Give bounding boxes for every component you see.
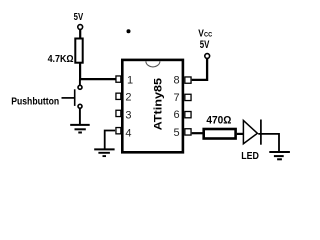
pushbutton S1 top contact (78, 85, 82, 89)
pushbutton S1 actuator bar (74, 89, 76, 106)
pushbutton S1 actuator stem (62, 97, 75, 99)
svg-text:5V: 5V (74, 12, 84, 23)
ground G2 at pin 4 (94, 149, 114, 156)
wire pushbutton bottom to ground (79, 109, 81, 125)
LED D1 triangle (243, 121, 257, 144)
svg-text:470Ω: 470Ω (206, 114, 231, 126)
pin 2 pad (116, 93, 121, 99)
svg-text:LED: LED (241, 150, 259, 162)
svg-text:8: 8 (174, 75, 180, 87)
svg-text:3: 3 (125, 110, 131, 122)
svg-text:1: 1 (127, 75, 133, 87)
svg-text:V: V (198, 28, 204, 40)
ground G1 under pushbutton (70, 125, 90, 133)
pin 4 pad (116, 128, 121, 134)
node 5V terminal circle (78, 25, 83, 30)
pin 8 pad (185, 77, 191, 83)
wire 5V terminal to R1 top (79, 29, 81, 38)
svg-text:Pushbutton: Pushbutton (11, 96, 59, 108)
svg-text:4.7KΩ: 4.7KΩ (48, 53, 74, 65)
ground G3 at LED (269, 152, 290, 159)
stray dot above U1 (127, 29, 131, 33)
svg-text:6: 6 (174, 109, 180, 121)
svg-text:7: 7 (174, 92, 180, 104)
pin 7 pad (185, 94, 191, 100)
wire R1 bottom to junction (79, 63, 81, 80)
svg-text:ATtiny85: ATtiny85 (153, 78, 165, 131)
pin 3 pad (116, 110, 121, 116)
wire pin 5 to R2 (192, 132, 203, 134)
pushbutton S1 bottom contact (78, 104, 82, 108)
resistor R1 4.7KΩ body (75, 39, 82, 63)
resistor R2 470Ω body (204, 129, 236, 139)
wire VCC terminal to pin 8 (192, 58, 207, 80)
wire LED cathode to ground (258, 134, 279, 151)
wire pin 4 to ground (105, 131, 115, 149)
svg-text:4: 4 (125, 127, 131, 139)
node VCC terminal circle (205, 54, 210, 59)
wire junction to pushbutton top (79, 80, 81, 86)
svg-text:5: 5 (174, 127, 180, 139)
IC U1 ATtiny85 body (122, 60, 183, 152)
pin 6 pad (185, 112, 191, 118)
wire R2 to LED anode (237, 133, 244, 135)
svg-text:CC: CC (204, 32, 212, 39)
LED D1 cathode bar (260, 120, 262, 145)
svg-text:2: 2 (125, 92, 131, 104)
svg-text:5V: 5V (200, 39, 210, 51)
U1 orientation notch (146, 61, 160, 67)
wire junction to IC pin 1 (79, 78, 116, 80)
pin 1 pad (116, 76, 121, 82)
pin 5 pad (185, 129, 191, 135)
